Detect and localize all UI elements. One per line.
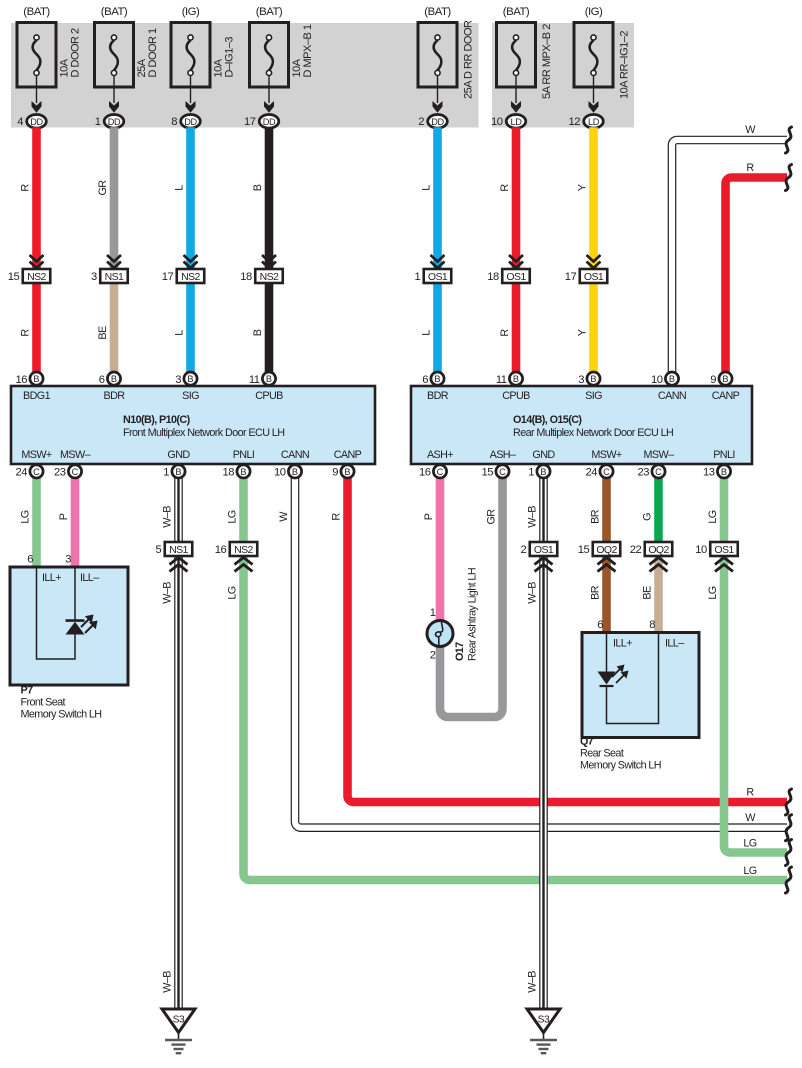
svg-text:(IG): (IG) [182, 6, 200, 18]
svg-text:B: B [590, 374, 596, 384]
wire L fuse to OS1 [433, 127, 442, 270]
svg-text:BE: BE [97, 326, 109, 340]
wire W CANN ECU1 to right edge [295, 478, 787, 828]
svg-text:BDG1: BDG1 [23, 390, 51, 402]
svg-text:LG: LG [743, 838, 756, 850]
pin 24 C MSW+ ECU2 [600, 465, 613, 478]
svg-text:CPUB: CPUB [255, 390, 283, 402]
fuse 1 box [95, 23, 134, 88]
svg-text:O14(B), O15(C): O14(B), O15(C) [513, 414, 582, 426]
svg-text:C: C [72, 467, 79, 477]
P7 LED [66, 619, 85, 622]
svg-text:3: 3 [175, 374, 181, 386]
svg-text:10: 10 [491, 116, 503, 128]
wire R OS1 to CPUB [512, 283, 521, 372]
svg-text:NS2: NS2 [234, 544, 253, 556]
svg-text:C: C [655, 467, 662, 477]
svg-text:15: 15 [482, 467, 494, 479]
svg-text:S3: S3 [173, 1015, 185, 1026]
Q7 Rear Seat Memory Switch LH box [582, 633, 699, 738]
pin 9 B CANP ECU2 [719, 372, 732, 385]
wire GR ASH- to bulb [440, 478, 503, 717]
connector 1 OS1 [424, 269, 452, 283]
svg-text:ASH–: ASH– [490, 449, 516, 461]
svg-text:10: 10 [695, 544, 707, 556]
svg-text:B: B [175, 467, 181, 477]
svg-text:B: B [33, 374, 39, 384]
svg-text:DD: DD [431, 117, 444, 127]
svg-text:W–B: W–B [162, 971, 174, 993]
svg-text:17: 17 [565, 271, 577, 283]
svg-text:16: 16 [16, 374, 28, 386]
wire LG MSW+ ECU1 to P7 [32, 478, 41, 570]
svg-text:Front Multiplex Network Door E: Front Multiplex Network Door ECU LH [123, 427, 284, 439]
svg-text:23: 23 [638, 467, 650, 479]
svg-text:24: 24 [16, 467, 28, 479]
svg-text:DD: DD [108, 117, 121, 127]
svg-text:P: P [423, 513, 435, 520]
break W bottom [786, 815, 792, 841]
svg-text:GND: GND [167, 449, 190, 461]
svg-text:MSW–: MSW– [644, 449, 675, 461]
pin 24 C MSW+ ECU1 [30, 465, 43, 478]
svg-text:6: 6 [99, 374, 105, 386]
wire R CANP ECU1 to right edge [348, 478, 788, 802]
pin 23 C MSW- ECU2 [652, 465, 665, 478]
svg-text:4: 4 [17, 116, 23, 128]
svg-text:D DOOR 1: D DOOR 1 [147, 28, 159, 78]
pin 13 B PNLI ECU2 [717, 465, 730, 478]
wire LG PNLI ECU1 to right edge [244, 478, 788, 880]
svg-text:18: 18 [487, 271, 499, 283]
svg-text:MSW+: MSW+ [21, 449, 52, 461]
svg-text:N10(B), P10(C): N10(B), P10(C) [123, 414, 191, 426]
connector 17 NS2 [177, 269, 205, 283]
wire BE OQ2 to Q7 [654, 556, 663, 635]
break R bottom [786, 789, 792, 815]
ECU N10(B),P10(C) Front Multiplex Network Door ECU LH [11, 386, 375, 464]
svg-text:Front Seat: Front Seat [21, 697, 66, 709]
break W top [786, 127, 792, 153]
svg-text:B: B [111, 374, 117, 384]
svg-text:8: 8 [649, 619, 655, 631]
svg-text:GR: GR [97, 180, 109, 196]
svg-text:R: R [746, 787, 754, 799]
svg-text:ILL–: ILL– [665, 638, 684, 650]
svg-text:GND: GND [532, 449, 555, 461]
fuse output connector 8 DD [181, 115, 201, 129]
svg-text:PNLI: PNLI [713, 449, 735, 461]
svg-text:W–B: W–B [527, 506, 539, 528]
svg-text:CANP: CANP [334, 449, 362, 461]
svg-text:16: 16 [215, 544, 227, 556]
svg-text:B: B [540, 467, 546, 477]
svg-text:W–B: W–B [162, 582, 174, 604]
fuse block band left [11, 23, 479, 128]
svg-text:W–B: W–B [527, 582, 539, 604]
svg-text:ILL+: ILL+ [42, 572, 61, 584]
svg-text:B: B [434, 374, 440, 384]
pin 16 C ASH+ [433, 465, 446, 478]
svg-text:L: L [174, 330, 186, 336]
svg-text:SIG: SIG [585, 390, 602, 402]
svg-text:PNLI: PNLI [233, 449, 255, 461]
svg-text:(BAT): (BAT) [256, 6, 283, 18]
svg-text:10A RR–IG1–2: 10A RR–IG1–2 [619, 31, 631, 99]
svg-text:B: B [721, 467, 727, 477]
svg-text:MSW+: MSW+ [591, 449, 622, 461]
svg-text:B: B [513, 374, 519, 384]
svg-text:2: 2 [418, 116, 424, 128]
svg-text:ILL+: ILL+ [613, 638, 632, 650]
svg-text:W: W [278, 511, 290, 522]
wire R fuse to OS1 [512, 127, 521, 270]
svg-text:OS1: OS1 [428, 271, 448, 283]
connector 15 OQ2 [593, 542, 621, 556]
svg-text:CANP: CANP [712, 390, 740, 402]
connector 3 NS1 [100, 269, 128, 283]
pin 10 B CANN ECU2 [665, 372, 678, 385]
svg-text:CPUB: CPUB [502, 390, 530, 402]
svg-text:C: C [603, 467, 610, 477]
svg-text:3: 3 [578, 374, 584, 386]
svg-text:18: 18 [223, 467, 235, 479]
wire W-B GND ECU1 to ground [174, 478, 183, 1008]
svg-text:OS1: OS1 [534, 544, 554, 556]
svg-text:R: R [746, 162, 754, 174]
svg-text:BDR: BDR [427, 390, 449, 402]
connector 18 OS1 [502, 269, 530, 283]
svg-text:15: 15 [578, 544, 590, 556]
svg-text:LG: LG [227, 586, 239, 599]
fuse 12 box [574, 23, 613, 88]
svg-text:G: G [642, 513, 654, 521]
wire P MSW- ECU1 to P7 [71, 478, 80, 570]
P7 internal circuit [37, 568, 76, 659]
svg-text:6: 6 [597, 619, 603, 631]
fuse output connector 2 DD [428, 115, 448, 129]
Q7 internal circuit [606, 633, 608, 672]
fuse block band right [492, 23, 634, 128]
svg-text:MSW–: MSW– [60, 449, 91, 461]
svg-text:BR: BR [590, 585, 602, 600]
wire B NS2 to CPUB [265, 283, 274, 372]
svg-text:25A D RR DOOR: 25A D RR DOOR [463, 20, 475, 99]
wire W CANN to top edge [672, 140, 787, 372]
fuse 8 box [171, 23, 210, 88]
svg-text:W–B: W–B [527, 971, 539, 993]
svg-text:R: R [331, 513, 343, 521]
svg-text:9: 9 [332, 467, 338, 479]
svg-text:NS2: NS2 [181, 271, 200, 283]
pin 10 B CANN ECU1 [288, 465, 301, 478]
svg-text:LG: LG [227, 510, 239, 523]
svg-text:6: 6 [27, 554, 33, 566]
svg-text:B: B [344, 467, 350, 477]
svg-text:LG: LG [20, 510, 32, 523]
svg-text:CANN: CANN [281, 449, 309, 461]
svg-text:16: 16 [419, 467, 431, 479]
svg-text:Rear Seat: Rear Seat [580, 748, 624, 760]
svg-text:W: W [745, 812, 756, 824]
fuse output connector 17 DD [259, 115, 279, 129]
wire LG PNLI ECU2 to right edge [724, 478, 787, 853]
pin 11 B CPUB ECU2 [509, 372, 522, 385]
svg-text:R: R [499, 184, 511, 192]
wire L OS1 to BDR [433, 283, 442, 372]
svg-text:B: B [252, 184, 264, 191]
fuse output connector 4 DD [27, 115, 47, 129]
pin 6 B BDR ECU2 [431, 372, 444, 385]
connector 22 OQ2 [645, 542, 673, 556]
svg-text:W–B: W–B [162, 506, 174, 528]
O17 Rear Ashtray Light LH bulb [427, 621, 453, 647]
svg-text:13: 13 [703, 467, 715, 479]
svg-text:5A RR MPX–B 2: 5A RR MPX–B 2 [541, 24, 553, 99]
svg-text:L: L [421, 185, 433, 191]
svg-text:Rear Ashtray Light LH: Rear Ashtray Light LH [467, 568, 479, 661]
svg-text:OQ2: OQ2 [596, 544, 617, 556]
svg-text:(BAT): (BAT) [101, 6, 128, 18]
svg-text:OS1: OS1 [506, 271, 526, 283]
wire P ASH+ to bulb [436, 478, 445, 622]
svg-text:LG: LG [707, 586, 719, 599]
wire L NS2 to SIG [186, 283, 195, 372]
svg-text:DD: DD [184, 117, 197, 127]
svg-text:(BAT): (BAT) [503, 6, 530, 18]
fuse output connector 10 LD [506, 115, 526, 129]
svg-text:BDR: BDR [104, 390, 126, 402]
fuse 17 box [250, 23, 289, 88]
connector 16 NS2 [230, 542, 258, 556]
svg-text:3: 3 [65, 554, 71, 566]
svg-text:B: B [292, 467, 298, 477]
svg-text:CANN: CANN [658, 390, 686, 402]
svg-text:6: 6 [422, 374, 428, 386]
svg-text:10: 10 [651, 374, 663, 386]
svg-text:NS2: NS2 [260, 271, 279, 283]
svg-text:17: 17 [244, 116, 256, 128]
connector 17 OS1 [580, 269, 608, 283]
fuse output connector 12 LD [584, 115, 604, 129]
svg-text:NS1: NS1 [105, 271, 124, 283]
svg-text:8: 8 [171, 116, 177, 128]
svg-text:C: C [437, 467, 444, 477]
svg-text:DD: DD [30, 117, 43, 127]
svg-text:2: 2 [430, 650, 436, 662]
wire BE NS1 to BDR [110, 283, 119, 372]
Q7 LED [598, 672, 616, 685]
svg-text:B: B [240, 467, 246, 477]
svg-text:O17: O17 [454, 642, 466, 661]
svg-text:B: B [669, 374, 675, 384]
pin 3 B SIG ECU2 [587, 372, 600, 385]
wire R fuse to NS2 [32, 127, 41, 270]
pin 16 B BDG1 [30, 372, 43, 385]
pin 1 B GND ECU2 [537, 465, 550, 478]
svg-text:Q7: Q7 [580, 736, 594, 748]
svg-text:B: B [266, 374, 272, 384]
svg-text:11: 11 [496, 374, 507, 386]
svg-text:LD: LD [588, 117, 600, 127]
svg-text:R: R [20, 329, 32, 337]
svg-text:1: 1 [528, 467, 534, 479]
pin 15 C ASH- [496, 465, 509, 478]
wire GR fuse to NS1 [110, 127, 119, 270]
pin 6 B BDR [107, 372, 120, 385]
svg-text:1: 1 [415, 271, 421, 283]
fuse 4 box [17, 23, 56, 88]
svg-text:10: 10 [274, 467, 286, 479]
svg-text:Y: Y [577, 329, 589, 336]
svg-text:L: L [421, 330, 433, 336]
wire L fuse to NS2 [186, 127, 195, 270]
svg-text:(BAT): (BAT) [23, 6, 50, 18]
svg-text:23: 23 [54, 467, 66, 479]
wire Y fuse to OS1 [589, 127, 598, 270]
fuse 2 box [418, 23, 457, 88]
svg-text:9: 9 [710, 374, 716, 386]
svg-text:(BAT): (BAT) [424, 6, 451, 18]
wire R NS2 to BDG1 [32, 283, 41, 372]
svg-text:LG: LG [707, 510, 719, 523]
wire G MSW- ECU2 to OQ2 [654, 478, 663, 543]
svg-text:1: 1 [430, 607, 436, 619]
svg-text:OS1: OS1 [584, 271, 604, 283]
ECU O14(B),O15(C) Rear Multiplex Network Door ECU LH [411, 386, 752, 464]
svg-text:R: R [499, 329, 511, 337]
svg-text:18: 18 [240, 271, 252, 283]
svg-text:DD: DD [263, 117, 276, 127]
svg-text:ILL–: ILL– [80, 572, 99, 584]
svg-text:P: P [58, 513, 70, 520]
svg-text:B: B [722, 374, 728, 384]
ground S3 left [162, 1009, 195, 1033]
svg-text:NS2: NS2 [27, 271, 46, 283]
fuse output connector 1 DD [104, 115, 124, 129]
svg-text:NS1: NS1 [169, 544, 188, 556]
connector 2 OS1 [530, 542, 558, 556]
svg-text:GR: GR [486, 509, 498, 525]
connector 18 NS2 [255, 269, 283, 283]
pin 9 B CANP ECU1 [341, 465, 354, 478]
svg-text:D–IG1–3: D–IG1–3 [224, 37, 236, 78]
svg-text:P7: P7 [21, 685, 34, 697]
pin 23 C MSW- ECU1 [68, 465, 81, 478]
pin 1 B GND ECU1 [172, 465, 185, 478]
svg-text:(IG): (IG) [585, 6, 603, 18]
pin 11 B CPUB [262, 372, 275, 385]
svg-text:1: 1 [163, 467, 169, 479]
svg-text:Rear Multiplex Network Door EC: Rear Multiplex Network Door ECU LH [513, 427, 673, 439]
svg-text:17: 17 [162, 271, 174, 283]
svg-text:Y: Y [577, 184, 589, 191]
svg-text:SIG: SIG [182, 390, 199, 402]
svg-text:5: 5 [156, 544, 162, 556]
svg-text:1: 1 [95, 116, 101, 128]
svg-text:D DOOR 2: D DOOR 2 [70, 28, 82, 78]
svg-text:D MPX–B 1: D MPX–B 1 [302, 24, 314, 77]
wire B fuse to NS2 [265, 127, 274, 270]
svg-text:L: L [174, 185, 186, 191]
svg-text:W: W [745, 124, 756, 136]
svg-text:ASH+: ASH+ [427, 449, 453, 461]
svg-text:11: 11 [249, 374, 260, 386]
svg-text:LG: LG [743, 865, 756, 877]
svg-text:B: B [252, 329, 264, 336]
svg-text:Memory Switch LH: Memory Switch LH [580, 760, 661, 772]
svg-text:B: B [187, 374, 193, 384]
connector 15 NS2 [23, 269, 51, 283]
svg-text:OQ2: OQ2 [648, 544, 669, 556]
svg-text:24: 24 [586, 467, 598, 479]
svg-text:12: 12 [569, 116, 581, 128]
svg-text:Memory Switch LH: Memory Switch LH [21, 709, 102, 721]
svg-text:S3: S3 [538, 1015, 550, 1026]
svg-text:BE: BE [642, 586, 654, 600]
svg-text:C: C [499, 467, 506, 477]
svg-text:R: R [20, 184, 32, 192]
connector 10 OS1 [710, 542, 738, 556]
svg-text:OS1: OS1 [714, 544, 734, 556]
svg-text:2: 2 [521, 544, 527, 556]
break LG2 [786, 867, 792, 893]
break R top [786, 165, 792, 191]
svg-text:3: 3 [91, 271, 97, 283]
pin 3 B SIG [184, 372, 197, 385]
pin 18 B PNLI ECU1 [237, 465, 250, 478]
connector 5 NS1 [165, 542, 193, 556]
svg-text:BR: BR [590, 509, 602, 524]
fuse 10 box [497, 23, 536, 88]
svg-text:22: 22 [630, 544, 642, 556]
svg-text:15: 15 [8, 271, 20, 283]
wire Y OS1 to SIG [589, 283, 598, 372]
wire R CANP to top edge [726, 178, 788, 373]
svg-text:LD: LD [511, 117, 523, 127]
svg-text:C: C [33, 467, 40, 477]
ground S3 right [527, 1009, 560, 1033]
wire W-B GND ECU2 to ground [539, 478, 548, 1008]
P7 Front Seat Memory Switch LH box [10, 567, 128, 685]
wire BR MSW+ ECU2 to Q7 [602, 478, 611, 635]
break LG1 [786, 840, 792, 866]
